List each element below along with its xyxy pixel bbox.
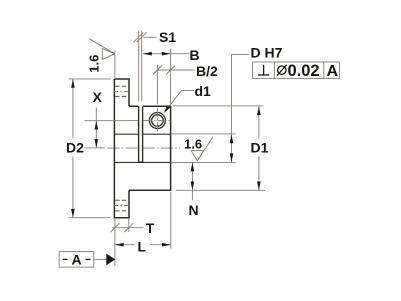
screw hole vertical centerline	[156, 108, 158, 134]
datum leader and triangle	[94, 258, 107, 260]
svg-text:1.6: 1.6	[184, 137, 202, 152]
svg-text:B: B	[190, 47, 200, 63]
flange hole centerline top	[113, 90, 130, 92]
dimension X line	[95, 108, 97, 148]
svg-text:A: A	[72, 252, 82, 268]
bore bottom extension right	[171, 161, 236, 163]
svg-text:B/2: B/2	[196, 63, 218, 79]
flange top extension left	[69, 78, 111, 80]
slit	[139, 106, 143, 162]
dimension B/2 line and ticks	[153, 66, 195, 75]
dimension B/2 extension line	[156, 65, 158, 105]
dimension L line	[115, 244, 171, 246]
screw hole horizontal centerline	[129, 120, 138, 122]
svg-text:N: N	[189, 202, 199, 218]
dimension N line	[191, 163, 193, 201]
roughness symbol bore	[191, 151, 203, 161]
svg-text:0.02: 0.02	[288, 62, 320, 80]
flange mounting hole hidden lines bottom	[115, 200, 129, 211]
flange edge extensions down	[115, 219, 129, 266]
dimension B line and arrows	[143, 53, 190, 55]
roughness symbol top-left	[89, 39, 115, 60]
dimension X extension line (screw center)	[85, 120, 130, 122]
leader D H7	[232, 54, 249, 162]
hub top extension right	[173, 105, 264, 107]
bore top edge	[115, 133, 171, 135]
bore bottom edge	[115, 161, 171, 163]
hub bottom extension right	[176, 189, 266, 191]
slit bottom junction	[138, 161, 143, 163]
dimension S1 extension lines	[139, 31, 142, 102]
svg-text:X: X	[93, 89, 103, 105]
svg-text:D1: D1	[251, 140, 269, 156]
leader d1	[166, 91, 194, 111]
dimension D1 line	[258, 106, 260, 190]
svg-text:S1: S1	[159, 29, 176, 45]
svg-text:L: L	[138, 239, 147, 255]
svg-text:A: A	[327, 63, 339, 80]
hub right extension down	[170, 192, 172, 249]
svg-text:1.6: 1.6	[87, 55, 102, 73]
hub right extension line upper	[170, 49, 172, 105]
datum A box	[59, 252, 94, 268]
flange hole centerline bottom	[113, 205, 130, 207]
centerline main axis	[108, 147, 139, 149]
hub outline	[129, 106, 171, 190]
flange bottom extension left	[69, 217, 111, 219]
set screw hole circles d1	[149, 113, 165, 129]
svg-text:T: T	[146, 220, 155, 236]
flange left edge extension up	[114, 51, 116, 78]
flange mounting hole hidden lines top	[115, 86, 129, 96]
svg-text:D H7: D H7	[251, 45, 283, 61]
svg-text:d1: d1	[195, 83, 212, 99]
centerline stub for X	[84, 147, 105, 149]
dimension D2 line	[72, 79, 74, 218]
dimension T line and ticks	[110, 223, 143, 232]
svg-text:D2: D2	[66, 140, 84, 156]
bore top extension right	[171, 133, 236, 135]
perpendicularity symbol	[258, 65, 269, 75]
flange outline	[114, 79, 129, 218]
feature control frame	[253, 62, 340, 78]
dimension S1 ticks and leader	[134, 32, 157, 42]
